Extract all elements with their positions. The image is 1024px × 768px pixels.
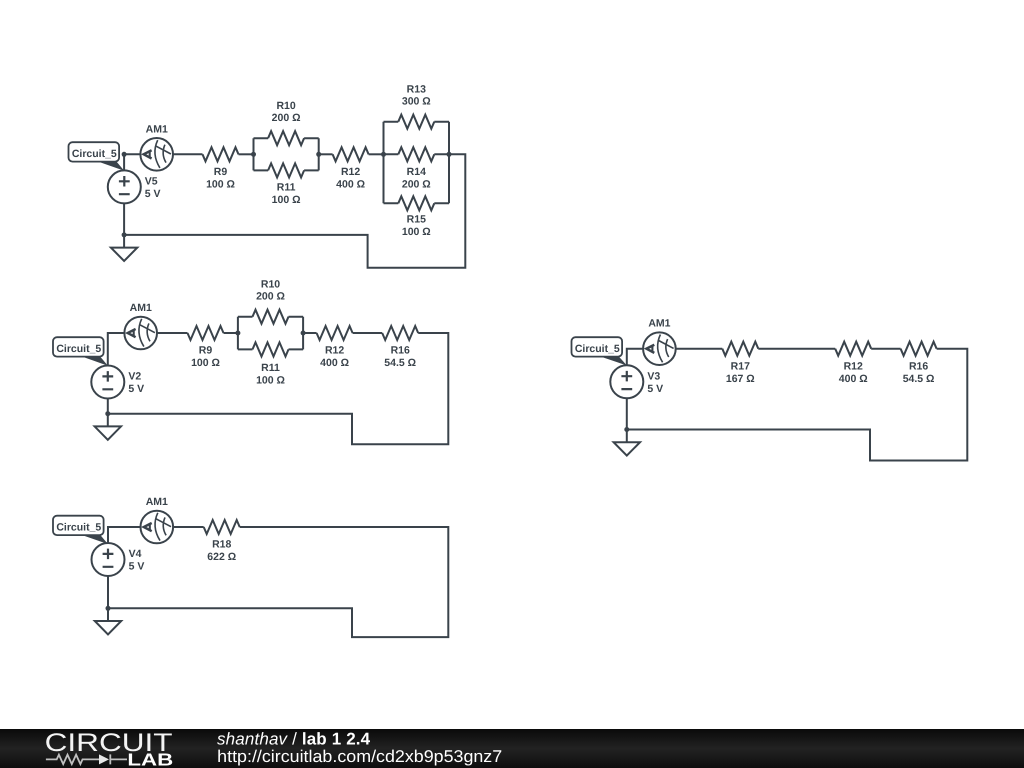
wire bbox=[173, 526, 204, 528]
resistor R12 400 Ω bbox=[835, 342, 871, 385]
svg-text:R10: R10 bbox=[261, 279, 280, 291]
wire bbox=[124, 154, 140, 170]
CircuitLab logo resistor-diode glyph bbox=[46, 754, 127, 764]
svg-text:200 Ω: 200 Ω bbox=[402, 179, 431, 191]
svg-text:R9: R9 bbox=[199, 345, 213, 357]
wire parallel frame R10/R11 bbox=[238, 317, 303, 350]
node junction bbox=[235, 331, 240, 336]
svg-text:R17: R17 bbox=[731, 360, 750, 372]
resistor R11 100 Ω bbox=[253, 342, 289, 386]
resistor R12 400 Ω bbox=[317, 326, 353, 369]
resistor R14 200 Ω bbox=[398, 147, 434, 190]
resistor R18 622 Ω bbox=[204, 520, 240, 563]
node junction bbox=[447, 152, 452, 157]
svg-text:R12: R12 bbox=[325, 345, 344, 357]
svg-text:R15: R15 bbox=[407, 214, 426, 226]
node junction bbox=[251, 152, 256, 157]
wire bbox=[319, 153, 333, 155]
node junction bbox=[624, 427, 629, 432]
node junction bbox=[105, 411, 110, 416]
resistor R10 200 Ω bbox=[268, 100, 304, 145]
ammeter AM1 bbox=[643, 318, 676, 365]
svg-text:R16: R16 bbox=[909, 360, 928, 372]
svg-text:167 Ω: 167 Ω bbox=[726, 373, 755, 385]
wire bbox=[303, 332, 317, 334]
resistor R16 54.5 Ω bbox=[901, 342, 937, 385]
node junction bbox=[122, 152, 127, 157]
resistor R13 300 Ω bbox=[398, 84, 434, 129]
svg-text:5 V: 5 V bbox=[128, 383, 144, 395]
node junction bbox=[301, 331, 306, 336]
svg-text:AM1: AM1 bbox=[146, 123, 168, 135]
svg-text:V3: V3 bbox=[647, 370, 660, 382]
svg-text:100 Ω: 100 Ω bbox=[206, 179, 235, 191]
ammeter AM1 bbox=[140, 123, 173, 170]
svg-text:5 V: 5 V bbox=[647, 383, 663, 395]
wire bbox=[369, 153, 384, 155]
svg-text:R16: R16 bbox=[391, 345, 410, 357]
svg-text:shanthav / lab 1 2.4: shanthav / lab 1 2.4 bbox=[217, 730, 371, 749]
wire bbox=[676, 348, 723, 350]
svg-text:R10: R10 bbox=[276, 100, 295, 112]
voltage source V5 5 V bbox=[108, 170, 161, 203]
wire bbox=[107, 576, 109, 621]
net label Circuit_5 (circuit 2) bbox=[53, 337, 108, 366]
svg-text:400 Ω: 400 Ω bbox=[839, 373, 868, 385]
node junction bbox=[122, 232, 127, 237]
svg-text:AM1: AM1 bbox=[146, 496, 168, 508]
svg-text:5 V: 5 V bbox=[129, 561, 145, 573]
wire bbox=[123, 203, 125, 247]
svg-text:100 Ω: 100 Ω bbox=[272, 194, 301, 206]
resistor R17 167 Ω bbox=[722, 342, 758, 385]
svg-text:200 Ω: 200 Ω bbox=[272, 112, 301, 124]
wire bbox=[107, 399, 109, 427]
svg-text:54.5 Ω: 54.5 Ω bbox=[903, 373, 935, 385]
ground bbox=[95, 621, 121, 634]
wire bbox=[626, 398, 628, 442]
wire parallel frame R10/R11 bbox=[254, 138, 319, 170]
node junction bbox=[106, 606, 111, 611]
svg-text:5 V: 5 V bbox=[145, 188, 161, 200]
svg-text:V5: V5 bbox=[145, 175, 158, 187]
node junction bbox=[316, 152, 321, 157]
wire bbox=[108, 333, 125, 366]
wire bbox=[871, 348, 900, 350]
svg-text:R11: R11 bbox=[261, 362, 280, 374]
ground bbox=[614, 442, 640, 455]
wire bbox=[108, 333, 449, 444]
wire bbox=[157, 332, 188, 334]
svg-text:400 Ω: 400 Ω bbox=[336, 179, 365, 191]
ground bbox=[111, 248, 137, 261]
wire bbox=[627, 349, 968, 461]
svg-text:R12: R12 bbox=[341, 166, 360, 178]
wire bbox=[758, 348, 835, 350]
wire parallel frame R13/R14/R15 bbox=[384, 122, 450, 204]
resistor R9 100 Ω bbox=[203, 147, 239, 190]
resistor R15 100 Ω bbox=[398, 196, 434, 238]
svg-text:622 Ω: 622 Ω bbox=[207, 551, 236, 563]
svg-text:R12: R12 bbox=[844, 360, 863, 372]
svg-text:R13: R13 bbox=[407, 84, 426, 96]
svg-text:100 Ω: 100 Ω bbox=[256, 375, 285, 387]
voltage source V4 5 V bbox=[92, 543, 145, 576]
svg-text:AM1: AM1 bbox=[648, 318, 670, 330]
svg-text:300 Ω: 300 Ω bbox=[402, 96, 431, 108]
voltage source V2 5 V bbox=[91, 366, 144, 399]
svg-text:100 Ω: 100 Ω bbox=[191, 357, 220, 369]
wire bbox=[124, 154, 465, 267]
wire bbox=[353, 332, 383, 334]
wire bbox=[108, 527, 141, 543]
svg-text:200 Ω: 200 Ω bbox=[256, 291, 285, 303]
svg-text:R9: R9 bbox=[214, 166, 228, 178]
voltage source V3 5 V bbox=[610, 365, 663, 398]
wire bbox=[173, 153, 203, 155]
ammeter AM1 bbox=[124, 302, 157, 349]
svg-text:54.5 Ω: 54.5 Ω bbox=[384, 357, 416, 369]
resistor R11 100 Ω bbox=[268, 163, 304, 206]
wire bbox=[224, 332, 238, 334]
svg-text:R18: R18 bbox=[212, 539, 231, 551]
net label Circuit_5 (circuit 4) bbox=[53, 516, 108, 544]
svg-text:V4: V4 bbox=[129, 548, 142, 560]
wire bbox=[627, 349, 643, 366]
node junction bbox=[381, 152, 386, 157]
net label Circuit_5 (circuit 1) bbox=[69, 142, 125, 171]
svg-text:R14: R14 bbox=[407, 166, 426, 178]
net label Circuit_5 (circuit 3) bbox=[572, 337, 627, 365]
resistor R16 54.5 Ω bbox=[382, 326, 418, 369]
svg-text:AM1: AM1 bbox=[130, 302, 152, 314]
svg-text:http://circuitlab.com/cd2xb9p5: http://circuitlab.com/cd2xb9p53gnz7 bbox=[217, 747, 502, 766]
ground bbox=[95, 426, 121, 439]
footer bar bbox=[0, 729, 1024, 768]
svg-text:100 Ω: 100 Ω bbox=[402, 226, 431, 238]
svg-text:V2: V2 bbox=[128, 371, 141, 383]
svg-text:400 Ω: 400 Ω bbox=[320, 357, 349, 369]
resistor R9 100 Ω bbox=[188, 326, 224, 369]
svg-text:LAB: LAB bbox=[127, 750, 173, 768]
resistor R10 200 Ω bbox=[253, 279, 289, 324]
ammeter AM1 bbox=[141, 496, 174, 543]
wire bbox=[239, 153, 254, 155]
wire bbox=[108, 527, 448, 637]
resistor R12 400 Ω bbox=[333, 147, 369, 190]
svg-text:R11: R11 bbox=[277, 181, 296, 193]
